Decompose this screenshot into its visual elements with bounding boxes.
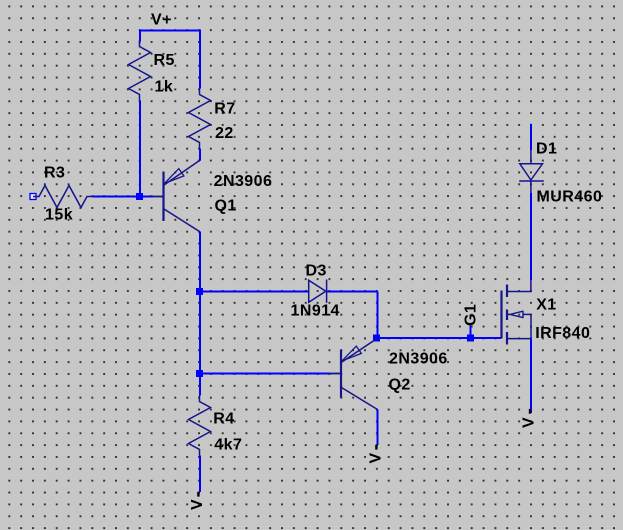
wire from V+ rail to R7: [199, 30, 201, 89]
mosfet X1 IRF840: [502, 280, 532, 345]
svg-text:V: V: [521, 417, 538, 428]
junction G1 node: [467, 335, 474, 342]
junction node at R4 / Q2 base: [196, 370, 203, 377]
wire D1 anode top: [530, 124, 532, 150]
wire D3 cathode to right: [327, 291, 378, 293]
svg-text:2N3906: 2N3906: [214, 173, 273, 190]
wire node to G1 / gate: [378, 337, 502, 339]
wire Q1 collector down: [199, 232, 201, 292]
wire D1 cathode to X1 drain: [530, 193, 532, 280]
svg-text:1k: 1k: [155, 79, 174, 96]
svg-text:15k: 15k: [45, 207, 73, 224]
svg-text:D1: D1: [536, 141, 557, 158]
port square (input): [30, 194, 36, 200]
diode D1: [519, 150, 544, 193]
svg-text:V+: V+: [151, 12, 172, 29]
svg-text:Q2: Q2: [389, 377, 411, 394]
svg-text:IRF840: IRF840: [535, 325, 590, 342]
wire from R5 to base node: [139, 101, 141, 197]
wire from R3 to base node: [93, 196, 140, 198]
wire R7 to Q1 emitter: [199, 149, 201, 161]
svg-text:22: 22: [215, 125, 234, 142]
wire R4 bottom: [199, 456, 201, 493]
svg-text:X1: X1: [536, 297, 556, 314]
wire X1 source down: [530, 339, 532, 413]
svg-text:2N3906: 2N3906: [389, 351, 448, 368]
wire R4 top: [199, 374, 201, 396]
svg-text:V: V: [367, 452, 384, 463]
junction node at Q1 collector: [196, 288, 203, 295]
resistor R3: [33, 186, 93, 208]
junction Q2 emitter node: [373, 335, 380, 342]
svg-text:V: V: [189, 499, 206, 510]
svg-text:R4: R4: [213, 410, 234, 427]
svg-text:MUR460: MUR460: [537, 188, 603, 205]
wire collector node to D3: [200, 291, 309, 293]
resistor R5: [129, 41, 151, 101]
svg-text:G1: G1: [463, 304, 480, 326]
svg-text:4k7: 4k7: [214, 437, 242, 454]
wire G1 stub: [470, 326, 472, 339]
svg-text:R5: R5: [154, 52, 175, 69]
transistor Q1 2N3906: [152, 161, 200, 232]
resistor R4: [189, 396, 211, 456]
wire from V+ rail to R5: [139, 30, 141, 42]
wire base node2 from collector node down: [199, 292, 201, 374]
svg-text:Q1: Q1: [215, 198, 237, 215]
wire base node to Q1: [140, 196, 152, 198]
resistor R7: [189, 89, 211, 149]
junction base node Q1: [136, 193, 143, 200]
svg-text:R3: R3: [44, 165, 65, 182]
svg-text:R7: R7: [214, 100, 235, 117]
wire Q2 collector down: [377, 410, 379, 446]
wire down to Q2 emitter node: [377, 292, 379, 339]
svg-text:1N914: 1N914: [291, 303, 340, 320]
wire V+ rail: [139, 30, 201, 32]
svg-text:D3: D3: [306, 263, 327, 280]
diode D3: [309, 280, 327, 303]
wire node to Q2 base: [200, 373, 329, 375]
transistor Q2 2N3906: [329, 339, 378, 410]
